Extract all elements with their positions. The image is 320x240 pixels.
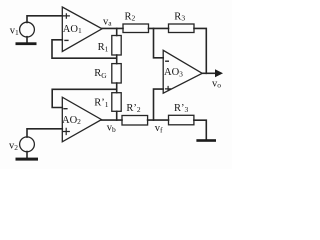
plus sign AO1 [63,14,69,18]
wire R2 right to R3 left [149,27,169,29]
wire R'1 bottom to vb node [116,111,118,120]
source V1 [20,22,35,37]
svg-text:R3: R3 [174,12,185,23]
resistor R'1 [112,93,121,112]
source V2 [20,137,35,152]
svg-text:v1: v1 [10,25,19,37]
ground symbol right [196,139,216,142]
svg-text:R’3: R’3 [174,103,189,114]
wire R1 bottom to RG top [116,55,118,64]
wire AO2 output to R'2 [102,119,123,121]
op-amp AO2 [62,97,101,142]
plus sign AO2 [63,128,69,134]
svg-text:vo: vo [212,78,221,89]
svg-text:v2: v2 [9,141,18,153]
wire AO1 output to R2 [102,27,123,29]
output arrow [215,69,223,77]
svg-text:AO3: AO3 [164,67,183,78]
wire AO2 feedback [52,89,117,107]
minus sign AO3 [166,60,169,62]
wire AO3 output [202,72,215,74]
resistor R'2 [122,116,148,126]
resistor R1 [112,36,121,56]
minus sign AO1 [65,39,68,41]
wire RG bottom to R'1 top [116,83,118,93]
svg-text:R2: R2 [125,12,136,23]
wire R3 right down to output node [194,28,206,73]
minus sign AO2 [64,108,67,110]
wire V2 bottom stem [26,152,28,158]
wire V1 bottom stem [26,37,28,43]
op-amp AO3 [163,50,202,93]
svg-text:R’1: R’1 [94,98,109,109]
resistor RG [112,64,121,83]
op-amp AO1 [62,7,102,52]
resistor R2 [123,24,149,33]
svg-text:va: va [103,16,112,27]
wire R'3 right to ground [194,120,206,139]
plus sign AO3 [166,87,171,91]
wire node down to AO3 minus input [154,28,164,57]
ground symbol V2 [16,158,39,161]
resistor R'3 [169,115,194,125]
svg-text:vb: vb [107,123,116,134]
wire V1 top to AO1 plus input [27,16,62,23]
wire node va down to R1 [116,28,118,35]
resistor R3 [169,24,195,33]
svg-text:R’2: R’2 [126,103,140,114]
svg-text:AO2: AO2 [62,115,81,126]
svg-text:AO1: AO1 [63,24,82,35]
wire R'2 right to R'3 left [148,119,169,121]
ground symbol V1 [16,42,37,45]
wire node vf up to AO3 plus input [154,89,164,120]
wire V2 top to AO2 plus input [27,129,62,137]
svg-text:R1: R1 [98,42,109,53]
wire AO1 feedback [52,40,117,58]
svg-text:vf: vf [155,123,163,134]
